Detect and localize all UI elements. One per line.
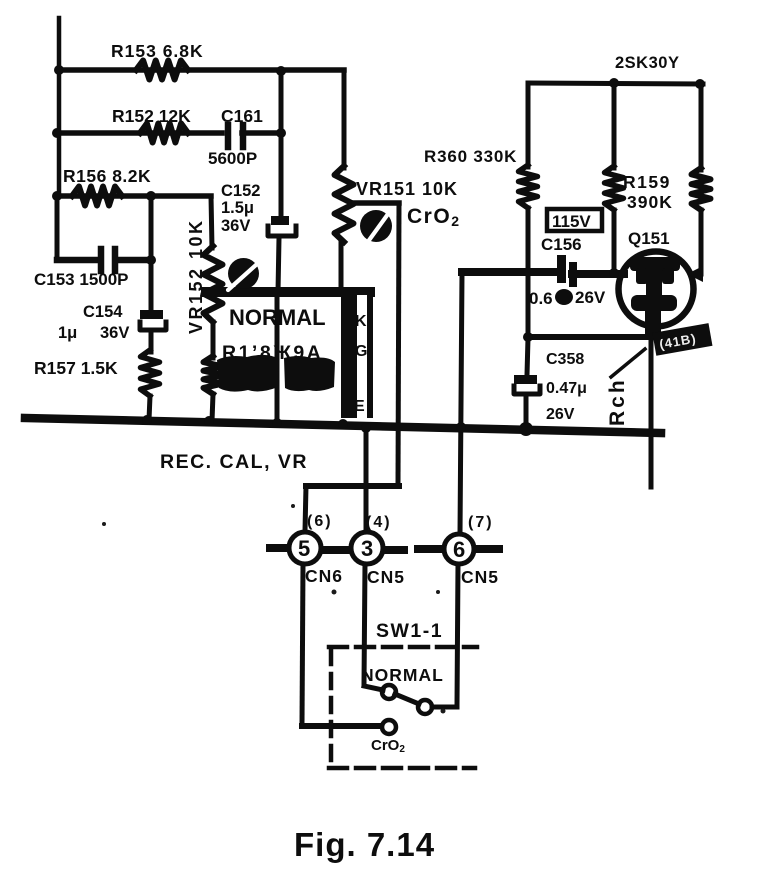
svg-text:C154: C154 xyxy=(83,303,123,321)
svg-text:K: K xyxy=(355,313,367,330)
svg-text:E: E xyxy=(354,398,365,415)
svg-text:NORMAL: NORMAL xyxy=(361,665,444,685)
svg-text:36V: 36V xyxy=(221,217,250,235)
svg-text:NORMAL: NORMAL xyxy=(229,305,326,330)
svg-text:3: 3 xyxy=(361,536,373,561)
svg-text:G: G xyxy=(355,343,367,360)
svg-text:R360 330K: R360 330K xyxy=(424,147,517,166)
svg-text:5: 5 xyxy=(298,536,310,561)
svg-text:6: 6 xyxy=(453,537,465,562)
svg-text:2SK30Y: 2SK30Y xyxy=(615,54,679,72)
svg-text:Q151: Q151 xyxy=(628,229,670,248)
svg-text:1μ: 1μ xyxy=(58,324,77,342)
svg-text:CrO2: CrO2 xyxy=(407,205,460,229)
svg-text:VR152 10K: VR152 10K xyxy=(186,218,206,334)
svg-text:SW1-1: SW1-1 xyxy=(376,620,443,642)
svg-text:R159: R159 xyxy=(623,172,671,192)
svg-text:REC. CAL, VR: REC. CAL, VR xyxy=(160,451,308,473)
svg-text:C358: C358 xyxy=(546,351,584,368)
svg-text:C153 1500P: C153 1500P xyxy=(34,270,129,289)
svg-text:26V: 26V xyxy=(575,288,606,307)
svg-text:36V: 36V xyxy=(100,324,129,342)
svg-text:C161: C161 xyxy=(221,106,263,126)
svg-text:C156: C156 xyxy=(541,235,582,254)
svg-text:R152 12K: R152 12K xyxy=(112,106,191,126)
svg-text:(4): (4) xyxy=(366,514,392,531)
svg-text:R157 1.5K: R157 1.5K xyxy=(34,358,118,378)
svg-text:R156 8.2K: R156 8.2K xyxy=(63,166,151,186)
svg-text:(7): (7) xyxy=(468,514,494,531)
svg-text:R1’8Ж9A: R1’8Ж9A xyxy=(222,342,323,364)
svg-text:26V: 26V xyxy=(546,406,575,423)
svg-text:(6): (6) xyxy=(307,513,333,530)
svg-text:R153 6.8K: R153 6.8K xyxy=(111,41,204,61)
svg-text:C152: C152 xyxy=(221,182,260,200)
svg-text:0.6: 0.6 xyxy=(529,289,553,308)
svg-text:CN5: CN5 xyxy=(367,567,405,587)
svg-text:115V: 115V xyxy=(552,212,591,231)
svg-text:CrO2: CrO2 xyxy=(371,737,405,755)
svg-text:5600P: 5600P xyxy=(208,149,257,168)
svg-text:1.5μ: 1.5μ xyxy=(221,199,254,217)
svg-text:Rch: Rch xyxy=(606,377,629,426)
svg-text:0.47μ: 0.47μ xyxy=(546,380,587,397)
svg-text:390K: 390K xyxy=(627,192,673,212)
svg-text:Fig. 7.14: Fig. 7.14 xyxy=(294,826,435,863)
svg-text:CN6: CN6 xyxy=(305,566,343,586)
svg-text:CN5: CN5 xyxy=(461,567,499,587)
svg-text:VR151 10K: VR151 10K xyxy=(356,179,458,199)
